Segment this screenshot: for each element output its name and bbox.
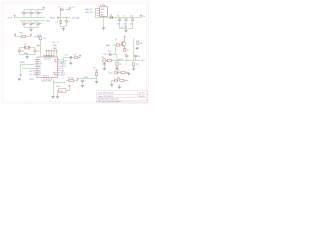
wire to FB1 [15,36,21,38]
svg-text:3V: 3V [57,42,59,44]
wire R10 down [118,84,120,86]
wire C1 top stem [23,10,25,13]
wire nrst horizontal [80,78,97,80]
capacitor C6 [36,23,39,24]
wire C17 stem [126,57,128,61]
svg-text:C17: C17 [124,54,127,56]
pin J1-3 [97,12,100,14]
power flag SW1 [69,85,71,88]
ground LED1 [127,73,130,76]
svg-text:100n: 100n [130,23,133,25]
ic U1 top pins [44,55,54,58]
wire nrst cap stem [82,79,84,81]
capacitor C1 [22,12,25,13]
wire SW1 right [67,90,69,92]
wire U1 top v5 [56,53,58,57]
junction main row [116,60,117,61]
wire R8 bottom [133,66,135,68]
svg-text:Y1: Y1 [24,44,26,46]
wire R12 top stub [40,34,42,37]
svg-text:VDD VSS: VDD VSS [44,58,51,60]
page border inner [3,3,146,101]
wire U1 left vertical [20,65,22,74]
ground U1 left [18,78,21,81]
wire lower cap bottom rail [24,27,38,29]
svg-text:J1 USB: J1 USB [100,5,107,7]
ground boot [51,96,54,99]
resistor R2 [95,73,97,76]
led D4 [115,69,120,74]
power flag Q1 collector [124,36,126,39]
wire crystal top [20,47,36,49]
ground R7 [115,67,118,70]
wire flag to upper rail [42,9,44,11]
wire C5 bottom stem [30,24,32,27]
svg-text:C10: C10 [130,15,133,17]
wire C3 top stem [37,10,39,13]
wire SW1 up [69,88,71,91]
zener D2 [59,21,62,24]
svg-text:PB6: PB6 [54,75,57,77]
svg-text:NRST: NRST [38,64,42,66]
wire C12 bottom [34,51,36,54]
wire SW1 left down [57,91,59,96]
wire boot horizontal [54,82,67,84]
ground D5 [110,84,113,87]
wire main row [103,60,141,62]
wire join bottom [61,26,67,28]
power flag nrst top [96,70,98,73]
svg-text:GND: GND [46,21,51,23]
svg-text:C6: C6 [34,22,36,24]
wire C3 bottom stem [37,14,39,18]
wire gnd stem cap bank [30,28,32,29]
svg-text:C8: C8 [117,15,119,17]
svg-text:OSC_IN: OSC_IN [29,71,36,73]
svg-text:File: mcu_board.sch Sheet: /: File: mcu_board.sch Sheet: / [98,100,123,103]
svg-text:VBUS: VBUS [50,17,56,19]
svg-text:C4: C4 [20,22,22,24]
resistor R7 [116,62,118,65]
ground nrst [95,81,98,84]
power flag boot [77,78,79,81]
ic U1 body [37,57,58,78]
power flag PWR02 +3V3 cap bank [43,7,45,10]
power flag VCAP [79,55,81,58]
wire R2 bottom [96,76,98,79]
resistor R5 [137,41,139,44]
connector J1 body [100,7,108,17]
svg-text:100n: 100n [64,61,68,63]
wire C11 stem [19,48,21,51]
wire chain gnd stem [125,28,127,31]
wire vbus up branch [60,10,62,18]
wire VCAP corner [63,58,65,63]
svg-text:100n: 100n [123,23,126,25]
svg-text:C18: C18 [137,56,140,58]
wire +3V3 to rail [15,17,20,19]
page border ticks [2,2,149,104]
svg-text:4u7 100n: 4u7 100n [121,26,127,28]
wire cap row down [116,55,118,61]
svg-text:LS1: LS1 [101,57,104,59]
wire vdd rail [20,17,45,19]
svg-text:C9: C9 [123,15,125,17]
wire 5v chain [96,17,142,19]
wire zener stem [60,18,62,21]
svg-text:C15: C15 [103,54,106,56]
svg-text:SCL: SCL [61,68,64,70]
ground power chain [124,29,127,32]
wire U1 top v1 [46,53,48,57]
wire crystal bottom rail [20,54,36,56]
wire cap row [107,54,117,56]
wire crystal gnd stem [26,55,28,56]
svg-text:R2: R2 [93,68,95,70]
svg-text:10k: 10k [43,38,46,40]
wire U1 top v2 [48,53,50,57]
capacitor C19 [103,64,106,65]
wire C10 top stem [132,18,134,20]
wire Q1 base [113,44,117,46]
wire C19 bottom [103,65,105,68]
wire R7 bottom [116,66,118,67]
wire VCAP from pin [61,62,64,64]
wire C6 top stem [37,21,39,24]
capacitor C10 [131,19,134,20]
diode D3 [110,16,113,19]
power flag U1 VDD3 [51,50,53,53]
wire chain gnd rail [120,28,133,30]
svg-text:BOOT0 VSS: BOOT0 VSS [42,81,51,83]
ic U1 pin names [38,58,57,77]
wire VCAP gnd stem [70,59,72,62]
wire D5 left down [111,81,113,84]
power flag VBUS arrow [58,17,60,19]
svg-text:Title: MCU board: Title: MCU board [98,91,113,94]
wire C1 bottom stem [23,14,25,18]
capacitor C3 [36,12,39,13]
svg-text:USB_DM: USB_DM [85,12,93,14]
wire C10 bottom stem [132,20,134,28]
wire C8 top stem [119,18,121,20]
wire gnd stem vbus [62,27,64,28]
svg-text:C3: C3 [34,11,36,13]
svg-text:R4: R4 [126,50,128,52]
svg-text:RST: RST [59,91,62,93]
svg-text:+3V3: +3V3 [7,18,13,20]
wire C2 bottom stem [30,14,32,18]
wire cap C7 stem [65,18,67,21]
wire U1 left OSC_IN [21,64,35,66]
svg-text:R5: R5 [140,43,142,45]
svg-text:KiCad E.D.A. kicad 5.1.9: KiCad E.D.A. kicad 5.1.9 [98,98,119,101]
wire diode to flag [65,9,70,11]
resistor R1 [69,79,73,81]
ground R8 [132,68,135,71]
power flag +5V top [69,7,71,10]
capacitor C13 [70,56,71,59]
power flag +5V chain [140,15,142,18]
svg-text:R1 10k: R1 10k [68,78,74,80]
ground cap bank [29,29,32,32]
wire U1 top v4 [53,53,55,57]
svg-text:OSC_OUT: OSC_OUT [29,74,37,76]
capacitor C16 [110,53,111,56]
svg-text:C7: C7 [68,22,70,24]
wire R10 right [124,80,126,82]
capacitor C18 [134,55,137,56]
wire C4 top stem [23,21,25,24]
svg-text:NRST: NRST [30,79,34,81]
svg-text:NRST: NRST [84,77,88,79]
svg-text:SW1: SW1 [56,86,59,88]
pin SW1 left [57,90,58,92]
svg-text:1 64 48 32: 1 64 48 32 [44,55,50,57]
power flag U1 VDDA [53,50,55,53]
svg-text:LED2: LED2 [61,75,65,77]
capacitor C8 [118,19,121,20]
wire upper cap top rail [24,9,42,11]
wire J1 shield stem [103,17,105,27]
wire Q1 emitter down [124,46,126,48]
svg-text:C5: C5 [27,22,29,24]
wire U1 top v3 [51,53,53,57]
ferrite bead FB1 [22,35,26,37]
capacitor C4 [22,23,25,24]
wire U1 top long vertical [40,40,42,57]
resistor R8 [132,63,134,66]
wire C5 top stem [30,21,32,24]
svg-text:OUT: OUT [141,60,145,62]
svg-text:R8: R8 [136,64,138,66]
resistor R11 [75,56,78,58]
ground Q1 area [135,47,138,50]
wire D5 left [112,80,115,82]
ground vbus [62,28,65,31]
wire nrst gnd stem [96,79,98,81]
wire J1 vbus down [95,9,97,18]
wire VCAP row [64,57,81,59]
svg-text:+3V3: +3V3 [52,42,56,44]
resistor R10 [120,79,124,81]
svg-text:D4: D4 [115,69,117,71]
page border outer [2,2,149,104]
svg-text:C1: C1 [20,11,22,13]
power flag U1 VBAT [56,50,58,53]
svg-text:USB_DP: USB_DP [85,9,93,11]
svg-text:D+ D-: D+ D- [100,12,104,14]
capacitor C2 [29,12,32,13]
svg-text:D1: D1 [59,7,61,9]
svg-text:Rev: A: Rev: A [139,95,145,98]
pin J1-2 [97,10,100,12]
power flag PWR01 +3V3 [14,15,16,18]
junction vbus [66,17,67,18]
transistor Q1 [121,41,125,46]
resistor R3 [116,44,119,46]
resistor R4 [124,48,126,51]
wire C9 bottom stem [125,20,127,28]
wire C18 stem [135,57,137,61]
power flag +3V3 left [14,34,16,37]
wire long vertical right rail [133,38,135,60]
svg-text:+5V_USB: +5V_USB [71,17,80,19]
ground LED2 [118,86,121,89]
ic U1 left pins [35,60,38,75]
svg-text:SWCLK: SWCLK [61,66,68,68]
svg-text:C11: C11 [21,51,24,53]
ground C19 [103,67,106,70]
wire C2 top stem [30,10,32,13]
power flag U1 left [20,74,22,77]
svg-text:BOOT0: BOOT0 [44,76,49,78]
svg-text:8MHz: 8MHz [24,53,28,55]
wire vbus horizontal [59,17,70,19]
capacitor C7 [65,21,68,22]
wire U1 left OSC_OUT [22,68,35,70]
svg-text:D2: D2 [55,22,57,24]
net labels right of U1 [61,59,68,76]
svg-text:C16: C16 [108,51,111,53]
power flag +3V3A [30,34,32,37]
wire C4 bottom stem [23,24,25,27]
power flag U1 left in [37,45,41,47]
led D5 [115,77,120,82]
diode D1 [60,8,63,11]
wire base to Q1 [120,44,123,46]
capacitor C14 [81,80,84,81]
svg-text:Q1: Q1 [115,39,117,41]
resistor R9 [121,71,125,73]
wire boot vertical [53,80,55,96]
svg-text:1u: 1u [125,63,127,65]
capacitor C9 [124,19,127,20]
speaker LS1 [102,59,106,63]
ground VCAP [69,62,72,65]
capacitor C5 [29,23,32,24]
wire R9 to gnd [125,72,129,74]
svg-text:100n: 100n [39,12,42,14]
capacitor C11 [18,50,21,51]
wire J1 pins left [95,8,97,10]
wire D4 to R9 [118,72,121,74]
wire C6 bottom stem [37,24,39,27]
svg-text:LED1: LED1 [109,73,113,75]
wire C7 bottom [65,22,67,27]
wire C19 stem [103,62,105,63]
ic U1 right pins [58,60,61,75]
svg-text:C13: C13 [65,55,68,57]
wire gnd rail [20,20,45,22]
svg-text:PF1: PF1 [38,62,41,64]
ic U1 bottom pins [44,78,52,81]
svg-text:Date: 2021-04-02: Date: 2021-04-02 [98,95,113,98]
wire C9 top stem [125,18,127,20]
title block frame [97,90,148,103]
capacitor C12 [33,50,36,51]
svg-text:Id: 1/1: Id: 1/1 [139,92,145,94]
wire C11 bottom [19,51,21,54]
ground crystal [26,56,29,59]
capacitor C17 [125,55,128,56]
switch SW1 body [59,89,66,93]
wire sw to resistor [66,80,78,82]
ground J1 shield [102,27,105,30]
pin J1-4 [97,14,100,16]
crystal Y1 [25,46,30,50]
wire long vertical left [115,46,117,55]
ground SW1 [56,96,59,99]
power flag U1 VDD1 [46,50,48,53]
svg-text:PB1: PB1 [54,59,57,61]
pin SW1 right [66,90,68,92]
power flag U1 VDD2 [48,50,50,53]
pin J1-1 [97,8,100,10]
wire C8 bottom stem [119,20,121,28]
svg-text:SWDIO: SWDIO [61,64,67,66]
svg-text:LED1: LED1 [61,73,65,75]
ground C14 [81,85,84,88]
svg-text:100n: 100n [39,23,42,25]
svg-text:PF0: PF0 [38,59,41,61]
svg-text:D3: D3 [110,15,112,17]
svg-text:VBUS: VBUS [100,9,104,11]
svg-text:R7: R7 [119,64,121,66]
svg-text:C12: C12 [37,51,40,53]
svg-text:100n: 100n [117,23,120,25]
wire C14 bottom [82,82,84,85]
wire zener bottom [60,23,62,26]
resistor R6 [108,59,112,61]
resistor R12 [39,37,41,40]
svg-text:C2: C2 [27,11,29,13]
wire Q1 collector up [124,39,126,42]
wire C12 stem [34,48,36,51]
svg-text:FB1: FB1 [20,33,23,35]
wire FB1 to flag [26,36,31,38]
